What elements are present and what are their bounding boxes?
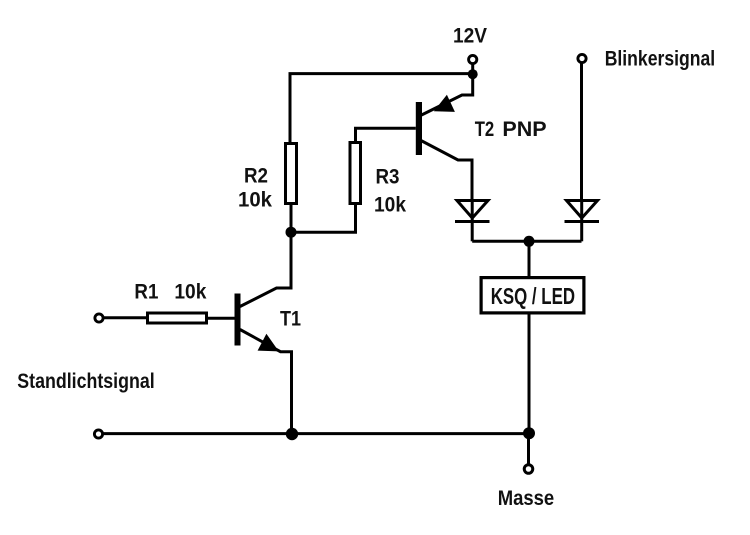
wire T1 collector (240, 232, 291, 307)
wire T1 emitter (240, 330, 292, 434)
node ground rail T1 (286, 428, 298, 440)
wire T2 collector (420, 140, 472, 200)
svg-text:T1: T1 (280, 307, 301, 331)
svg-text:R1: R1 (134, 280, 158, 304)
svg-text:12V: 12V (453, 24, 488, 48)
terminal Standlichtsignal (95, 314, 103, 322)
wire R1 to T1 base (208, 317, 235, 320)
wire node to KSQ box (528, 241, 531, 276)
svg-text:T2: T2 (475, 117, 495, 141)
svg-text:10k: 10k (374, 193, 406, 217)
T2 emitter arrow (434, 95, 455, 112)
transistor T1 base bar (235, 294, 241, 346)
wire ground rail (104, 432, 530, 435)
terminal Blinkersignal (578, 54, 586, 62)
svg-text:PNP: PNP (502, 117, 546, 141)
svg-text:R2: R2 (244, 163, 268, 187)
node below 12V terminal (468, 69, 478, 79)
wire Masse stub (527, 439, 530, 464)
wire R3 top to T2 base (356, 128, 416, 142)
resistor R1 (148, 313, 207, 323)
wire node to R3 bottom (291, 205, 356, 232)
svg-text:KSQ / LED: KSQ / LED (491, 283, 575, 309)
wire R2 bottom (290, 205, 293, 232)
diode D1 (455, 200, 490, 241)
T1 emitter arrow (258, 334, 279, 352)
wire 12V stub (471, 65, 474, 75)
wire Blinkersignal down (580, 64, 583, 201)
svg-text:10k: 10k (238, 188, 272, 212)
node diode rail (524, 236, 535, 247)
wire T2 emitter (421, 75, 473, 116)
wire input to R1 (104, 316, 146, 319)
resistor R2 (286, 144, 297, 204)
svg-text:10k: 10k (174, 280, 206, 304)
svg-text:Masse: Masse (498, 486, 555, 510)
terminal rail left (94, 430, 102, 438)
svg-text:Blinkersignal: Blinkersignal (605, 47, 716, 71)
svg-text:Standlichtsignal: Standlichtsignal (17, 369, 154, 393)
diode D2 (565, 200, 600, 241)
wire diode bottom rail (472, 240, 581, 243)
transistor T2 base bar (416, 102, 422, 155)
node R2 bottom (286, 227, 297, 238)
wire KSQ to ground rail (528, 315, 531, 434)
terminal 12V (469, 55, 477, 63)
resistor R3 (350, 143, 361, 204)
wire top rail (290, 74, 473, 142)
terminal Masse (524, 465, 533, 474)
box KSQ/LED (481, 278, 584, 313)
svg-text:R3: R3 (376, 165, 400, 189)
node ground rail right (523, 427, 535, 439)
